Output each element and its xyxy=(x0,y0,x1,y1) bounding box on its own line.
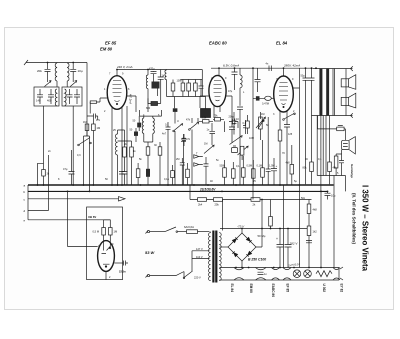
svg-text:10µ: 10µ xyxy=(331,194,336,198)
speaker LS2 xyxy=(341,93,356,108)
fuse F1 xyxy=(187,230,198,234)
coil L10 xyxy=(165,70,167,97)
svg-text:1,5k: 1,5k xyxy=(202,117,207,120)
label 53W xyxy=(145,250,156,255)
resistor R38 xyxy=(158,142,162,185)
wire det link top xyxy=(180,79,202,81)
svg-text:282 V: 282 V xyxy=(289,242,299,246)
label 1M xyxy=(114,230,118,234)
label EABC80 vertical xyxy=(271,284,275,298)
svg-text:EM 80: EM 80 xyxy=(100,47,113,52)
label 240V 2mA xyxy=(116,65,132,69)
heater H3 EABC80 xyxy=(272,268,280,281)
resistor R23 dark xyxy=(137,116,141,131)
resistor R8 80k xyxy=(310,162,314,172)
resistor R12 3k xyxy=(42,170,46,177)
wire EL84 cathode xyxy=(280,111,287,130)
svg-text:10M: 10M xyxy=(249,137,254,140)
label 22.5n xyxy=(119,270,126,274)
capacitor C36 xyxy=(90,114,98,119)
tube label EF85 xyxy=(105,41,117,46)
potentiometer P6 xyxy=(258,120,264,140)
svg-text:1M: 1M xyxy=(204,143,207,146)
EM80 enclosure box xyxy=(87,207,123,280)
lamp LA1 xyxy=(293,270,301,278)
IF can 2 cap C5 xyxy=(67,89,73,104)
label 47u xyxy=(63,167,68,171)
wire EABC80 right pin xyxy=(226,96,232,127)
small value labels xyxy=(47,68,340,280)
svg-text:EABC 80: EABC 80 xyxy=(271,284,275,298)
RC network C21 xyxy=(339,154,344,176)
capacitor C39 100p xyxy=(232,112,237,135)
capacitor C28 xyxy=(306,241,312,243)
resistor R2b xyxy=(92,119,96,186)
capacitor C29 1n xyxy=(258,272,268,276)
wire bridge right xyxy=(256,200,262,248)
labels 2k4 25k 2k xyxy=(198,203,256,207)
svg-text:47µ: 47µ xyxy=(63,167,68,171)
svg-text:47n: 47n xyxy=(96,119,101,122)
jack arrow J1 xyxy=(194,155,203,159)
wire EABC80 plate xyxy=(211,68,253,75)
wire EF85 drop extra xyxy=(126,106,128,185)
mains terminal 1 xyxy=(146,231,150,234)
svg-text:0,1: 0,1 xyxy=(318,158,322,161)
svg-text:50n: 50n xyxy=(301,197,306,200)
capacitor C22 10u xyxy=(325,191,331,199)
wire mid link xyxy=(118,130,132,141)
tube label EM80 xyxy=(100,47,113,52)
tube EF85 internals xyxy=(113,81,122,105)
label ECH81 vertical xyxy=(322,284,326,293)
resistor R10 xyxy=(123,141,127,172)
wire controls top link xyxy=(192,112,261,145)
resistor R27 75k xyxy=(213,118,224,121)
svg-text:25k: 25k xyxy=(215,203,220,207)
resistor R29 xyxy=(232,162,236,185)
resistor R1 cathode 100 xyxy=(90,101,96,114)
svg-text:EF 85: EF 85 xyxy=(105,41,117,46)
wire EABC80 left grid xyxy=(200,96,209,108)
bus a xyxy=(28,184,334,186)
svg-text:880: 880 xyxy=(146,107,151,110)
capacitor C24 47u xyxy=(69,150,75,185)
power transformer T2 primary xyxy=(209,232,211,281)
svg-text:UB 6V: UB 6V xyxy=(88,215,96,219)
jack arrow J2 xyxy=(194,163,203,167)
grid resistor R4 oval xyxy=(265,96,274,100)
switch S4 mains xyxy=(165,227,178,232)
filter capacitor C19 xyxy=(303,69,309,185)
wire HT line xyxy=(220,229,309,268)
svg-text:B 250 C100: B 250 C100 xyxy=(248,258,266,262)
svg-text:0,1M: 0,1M xyxy=(257,165,263,168)
label 5k xyxy=(266,123,269,127)
riser cathode to strip xyxy=(283,185,285,268)
wire det rail drop xyxy=(202,70,205,109)
strip right end xyxy=(339,267,343,280)
wire speaker feed 2 xyxy=(334,69,336,116)
label 140p xyxy=(36,99,41,103)
wire top antenna rail xyxy=(24,60,87,65)
svg-text:400: 400 xyxy=(47,99,52,103)
wire EABC80 bottom pins xyxy=(214,106,220,119)
IF can 2 coil L4 xyxy=(65,89,67,106)
heater H1 EL84 xyxy=(234,268,244,281)
tube EABC80 envelope xyxy=(209,75,226,106)
power transformer T2 secondary xyxy=(219,233,221,281)
selector taps xyxy=(192,251,210,271)
wire EM80 grid feed xyxy=(68,191,98,246)
potentiometer P5 xyxy=(256,117,265,129)
resistor R28 xyxy=(223,160,227,185)
capacitor C42 xyxy=(199,80,204,97)
svg-text:29,5/30,6V: 29,5/30,6V xyxy=(199,187,216,191)
capacitor C14 xyxy=(232,68,238,90)
wire feedback line xyxy=(318,116,337,129)
line c xyxy=(28,198,119,200)
wire cathode net xyxy=(87,116,98,120)
title main Stereo Vineta xyxy=(361,185,370,272)
line c2 chain xyxy=(190,185,312,200)
resistor R15 25k xyxy=(214,198,223,202)
speaker LS1 xyxy=(341,75,356,90)
resistor R43 xyxy=(187,80,191,97)
resistor R16 2k xyxy=(251,198,260,202)
resistor R19 4k8 xyxy=(307,200,311,227)
filter capacitor C20 xyxy=(309,69,315,116)
label 20k xyxy=(37,69,42,73)
capacitor C25 xyxy=(124,261,129,266)
title small Geraetetyp xyxy=(350,164,354,178)
svg-text:U 302: U 302 xyxy=(322,284,326,293)
label 10p xyxy=(78,69,83,73)
svg-text:EABC 80: EABC 80 xyxy=(209,41,227,46)
wire EL84 plate xyxy=(283,68,285,76)
capacitor C43 xyxy=(180,158,185,185)
svg-text:(II. Teil des Schaltbildes): (II. Teil des Schaltbildes) xyxy=(352,193,357,244)
label 110V xyxy=(196,255,203,259)
electrolytic C26 xyxy=(276,229,284,268)
resistor R9 xyxy=(328,116,332,185)
switch S1 contacts xyxy=(189,122,199,130)
speaker LS3 xyxy=(342,137,356,154)
svg-text:0,47M: 0,47M xyxy=(262,103,269,106)
label 29.5V xyxy=(199,187,216,191)
label lamps xyxy=(287,262,301,268)
capacitor C11 xyxy=(181,134,186,185)
wire bridge bottom xyxy=(241,261,243,268)
wire det link bottom xyxy=(167,96,203,98)
label UB 6V xyxy=(88,215,96,219)
wire branch left xyxy=(38,163,44,185)
svg-text:0,5M: 0,5M xyxy=(247,165,253,168)
capacitor C34 xyxy=(204,157,209,185)
svg-text:1M: 1M xyxy=(261,113,264,116)
svg-text:0,3: 0,3 xyxy=(243,122,247,125)
filter block NSF xyxy=(201,109,211,118)
svg-text:4k8: 4k8 xyxy=(313,208,318,212)
resistor R24 dark xyxy=(134,128,138,142)
label 467mA vertical xyxy=(129,94,132,104)
label 400p xyxy=(47,99,52,103)
resistor R31 xyxy=(252,160,256,185)
heater strip top rail xyxy=(222,267,339,269)
resistor R25 880 box xyxy=(148,98,161,105)
electrolytic C37 5u xyxy=(271,158,278,185)
IF can 2 trimmer xyxy=(70,81,77,87)
svg-text:6A/0,6A: 6A/0,6A xyxy=(184,225,194,229)
capacitor C30 xyxy=(151,71,157,74)
IF coil L6 xyxy=(142,116,144,142)
svg-text:1M: 1M xyxy=(83,121,86,124)
resistor R42 xyxy=(181,80,185,97)
selector arm xyxy=(183,271,192,279)
wire bridge top xyxy=(241,229,243,234)
svg-text:1M: 1M xyxy=(114,230,118,234)
wire secondary to strip xyxy=(220,268,223,281)
label 50Mu xyxy=(258,234,266,238)
label 1k2 xyxy=(313,230,318,234)
wire to fuse xyxy=(178,231,187,233)
svg-text:0,1: 0,1 xyxy=(236,165,240,168)
svg-text:280V, 42mA: 280V, 42mA xyxy=(283,64,300,68)
svg-text:+: + xyxy=(276,237,278,241)
capacitor C31 200p xyxy=(229,119,238,125)
heater strip bottom rail xyxy=(222,279,339,281)
IF can 1 cap C2 140p xyxy=(37,89,43,104)
label 0.47M xyxy=(262,103,269,106)
wire EL84 screen xyxy=(292,69,299,186)
resistor R44 xyxy=(194,80,198,97)
tube label EABC80 xyxy=(209,41,227,46)
label EF85 vertical xyxy=(286,284,290,293)
svg-text:10µ: 10µ xyxy=(78,69,83,73)
wire chain to transformer xyxy=(222,200,224,231)
resistor R30 xyxy=(242,156,246,185)
cathode resistor R5 xyxy=(278,130,282,185)
output transformer T1 secondary line xyxy=(332,69,334,116)
capacitor C15 xyxy=(229,127,235,143)
wire OT top rail xyxy=(313,66,353,71)
wire e to resistors xyxy=(104,219,111,221)
svg-text:-73 V: -73 V xyxy=(237,225,245,229)
resistor R14 2k4 xyxy=(198,198,207,202)
svg-text:53 W: 53 W xyxy=(145,250,156,255)
wire EM80 bottom xyxy=(105,271,107,279)
label 6.3V xyxy=(223,64,239,68)
riser screen to strip xyxy=(299,185,301,268)
svg-text:470µ: 470µ xyxy=(149,68,155,71)
svg-text:50 Mµ: 50 Mµ xyxy=(258,234,266,238)
svg-text:0,3: 0,3 xyxy=(77,154,81,157)
wire right horizontal xyxy=(317,176,345,192)
resistor R36 xyxy=(146,147,150,155)
IF can 2 coil L3 xyxy=(67,63,69,87)
svg-text:110 V: 110 V xyxy=(196,255,203,259)
svg-text:0,1: 0,1 xyxy=(165,124,169,127)
capacitor C41 1n xyxy=(182,134,186,146)
capacitor C38 47u xyxy=(237,107,243,185)
capacitor C17 xyxy=(255,68,261,92)
wire right column c xyxy=(320,116,322,192)
riser EL84 cathode to strip xyxy=(252,185,254,200)
svg-text:467,2mA: 467,2mA xyxy=(129,94,132,104)
IF can 2 cap C6 xyxy=(74,89,80,104)
label 282V xyxy=(289,242,299,246)
bus b xyxy=(28,190,328,192)
RC network R7 xyxy=(334,150,341,176)
tube EL84 internals xyxy=(279,83,288,108)
label 127V xyxy=(196,247,203,251)
label 4k8 xyxy=(313,208,318,212)
svg-text:220 V: 220 V xyxy=(194,276,201,280)
connector arrow c xyxy=(119,197,126,201)
wire top HT rail xyxy=(253,67,313,69)
resistor R26 1k5 xyxy=(199,120,213,123)
label 280V 42mA xyxy=(283,64,300,68)
label 1M xyxy=(97,126,101,130)
tube EL84 envelope xyxy=(274,76,294,112)
label 10u xyxy=(331,194,336,198)
resistor R41 xyxy=(171,80,175,97)
svg-text:I 350 W – Stereo Vineta: I 350 W – Stereo Vineta xyxy=(361,185,370,272)
resistor R11 xyxy=(130,141,134,185)
potentiometer P9 body xyxy=(240,146,244,160)
svg-text:0,5 M: 0,5 M xyxy=(93,230,100,234)
svg-text:100k: 100k xyxy=(177,80,183,83)
svg-text:1,5M: 1,5M xyxy=(269,165,275,168)
svg-text:EL 84: EL 84 xyxy=(230,284,234,293)
coil L9 mid left xyxy=(115,130,117,185)
resistor R22 wavy xyxy=(316,271,332,277)
wire EF85 left grid xyxy=(97,98,108,102)
label EM80 vertical xyxy=(249,284,253,293)
svg-text:U: U xyxy=(177,120,179,123)
riser right end to strip xyxy=(333,176,335,268)
IF can 2 capacitor C4 xyxy=(70,63,76,83)
label EL84 vertical xyxy=(230,284,234,293)
resistor R20 xyxy=(307,226,311,236)
output transformer T1 winding bar 1 xyxy=(319,69,322,116)
wire right column a xyxy=(311,115,313,184)
switch S5 xyxy=(173,124,183,185)
wire EM80 right xyxy=(114,262,123,264)
IF can 1 coil L2 xyxy=(55,89,57,106)
heater H2 EM80 xyxy=(256,268,267,281)
resistor R18 UB xyxy=(109,220,113,242)
capacitor C10 xyxy=(166,122,171,185)
svg-text:500k: 500k xyxy=(220,165,226,168)
wire EF85 bottom pins xyxy=(112,107,122,185)
resistor R34 4k8 mid xyxy=(290,145,294,185)
power transformer T2 core xyxy=(213,231,216,283)
svg-text:47µ: 47µ xyxy=(228,90,233,93)
wire can3 drops xyxy=(144,142,153,185)
svg-text:EY 82: EY 82 xyxy=(340,284,344,293)
wire EF85 plate to rail xyxy=(116,70,118,76)
lamp LA2 xyxy=(304,270,312,278)
label EY82 vertical xyxy=(340,284,344,293)
detector blob D1 xyxy=(173,97,178,124)
tube label EL84 xyxy=(276,41,288,46)
svg-text:4n7: 4n7 xyxy=(162,133,167,136)
svg-text:1M: 1M xyxy=(97,126,101,130)
capacitor C18 cathode bypass xyxy=(284,119,290,185)
resistor R21 500 xyxy=(269,200,273,229)
tube EM80 envelope xyxy=(98,241,115,272)
wire right column b xyxy=(316,116,318,176)
heater H5 xyxy=(333,268,340,281)
capacitor C33 1n xyxy=(210,123,216,140)
resistor R45 xyxy=(136,163,140,185)
svg-text:200p: 200p xyxy=(229,116,235,119)
svg-text:Gerätetyp: Gerätetyp xyxy=(350,164,354,178)
label 220V xyxy=(194,276,201,280)
resistor R40 xyxy=(186,163,190,185)
svg-text:6,3V, 0,6mA: 6,3V, 0,6mA xyxy=(223,64,239,68)
svg-text:140: 140 xyxy=(36,99,41,103)
svg-text:240 V, 2mA: 240 V, 2mA xyxy=(116,65,132,69)
svg-text:EM 80: EM 80 xyxy=(249,284,253,293)
label 0.5M xyxy=(93,230,100,234)
wire fuse to transformer xyxy=(198,231,210,233)
wire right column d xyxy=(322,116,324,176)
svg-text:4k8: 4k8 xyxy=(286,162,291,165)
svg-text:20k: 20k xyxy=(37,69,42,73)
wire can1 drop xyxy=(43,106,45,185)
filter block NSF dark xyxy=(152,74,160,97)
resistor R32 xyxy=(261,140,265,185)
capacitor C8 under rail xyxy=(158,70,164,104)
capacitor C23 xyxy=(122,172,128,186)
wire anode rail xyxy=(117,69,202,71)
wire EF85 right pin xyxy=(127,96,136,112)
potentiometer P9 arrow xyxy=(238,146,249,155)
wire secondary to bridge xyxy=(220,246,229,248)
capacitor C32 xyxy=(243,120,248,134)
svg-text:2M: 2M xyxy=(176,158,179,161)
wire mains bottom xyxy=(150,272,184,278)
coil L5 after anode rail xyxy=(146,70,148,113)
wire coil link xyxy=(140,110,162,116)
feedback resistor R6 xyxy=(337,125,346,140)
IF can 1 lower box xyxy=(34,87,59,106)
svg-text:EF 85: EF 85 xyxy=(286,284,290,293)
coupling capacitor C16 dark xyxy=(253,96,265,100)
potentiometer P7 arrow xyxy=(204,145,214,153)
line e xyxy=(28,219,111,221)
wire switch verticals xyxy=(84,136,90,191)
svg-text:47n: 47n xyxy=(186,138,191,141)
riser right b to strip xyxy=(320,191,322,267)
switch S2 xyxy=(283,113,296,120)
wire AVC vertical xyxy=(86,63,88,137)
heater H4 EF85 xyxy=(283,268,291,281)
tube EM80 internals xyxy=(102,242,111,268)
svg-text:1k2: 1k2 xyxy=(313,230,318,234)
resistor R2 xyxy=(85,124,89,136)
switch S3 xyxy=(78,138,92,146)
svg-text:0,1µ: 0,1µ xyxy=(164,178,169,181)
mains terminal 2 xyxy=(146,275,150,278)
IF can 1 coil L1 xyxy=(55,63,57,88)
IF can 1 trimmer xyxy=(45,81,52,87)
wire grid drop xyxy=(252,68,254,185)
resistor R37 dark xyxy=(146,169,150,177)
wire OT bottom rail xyxy=(312,113,353,118)
